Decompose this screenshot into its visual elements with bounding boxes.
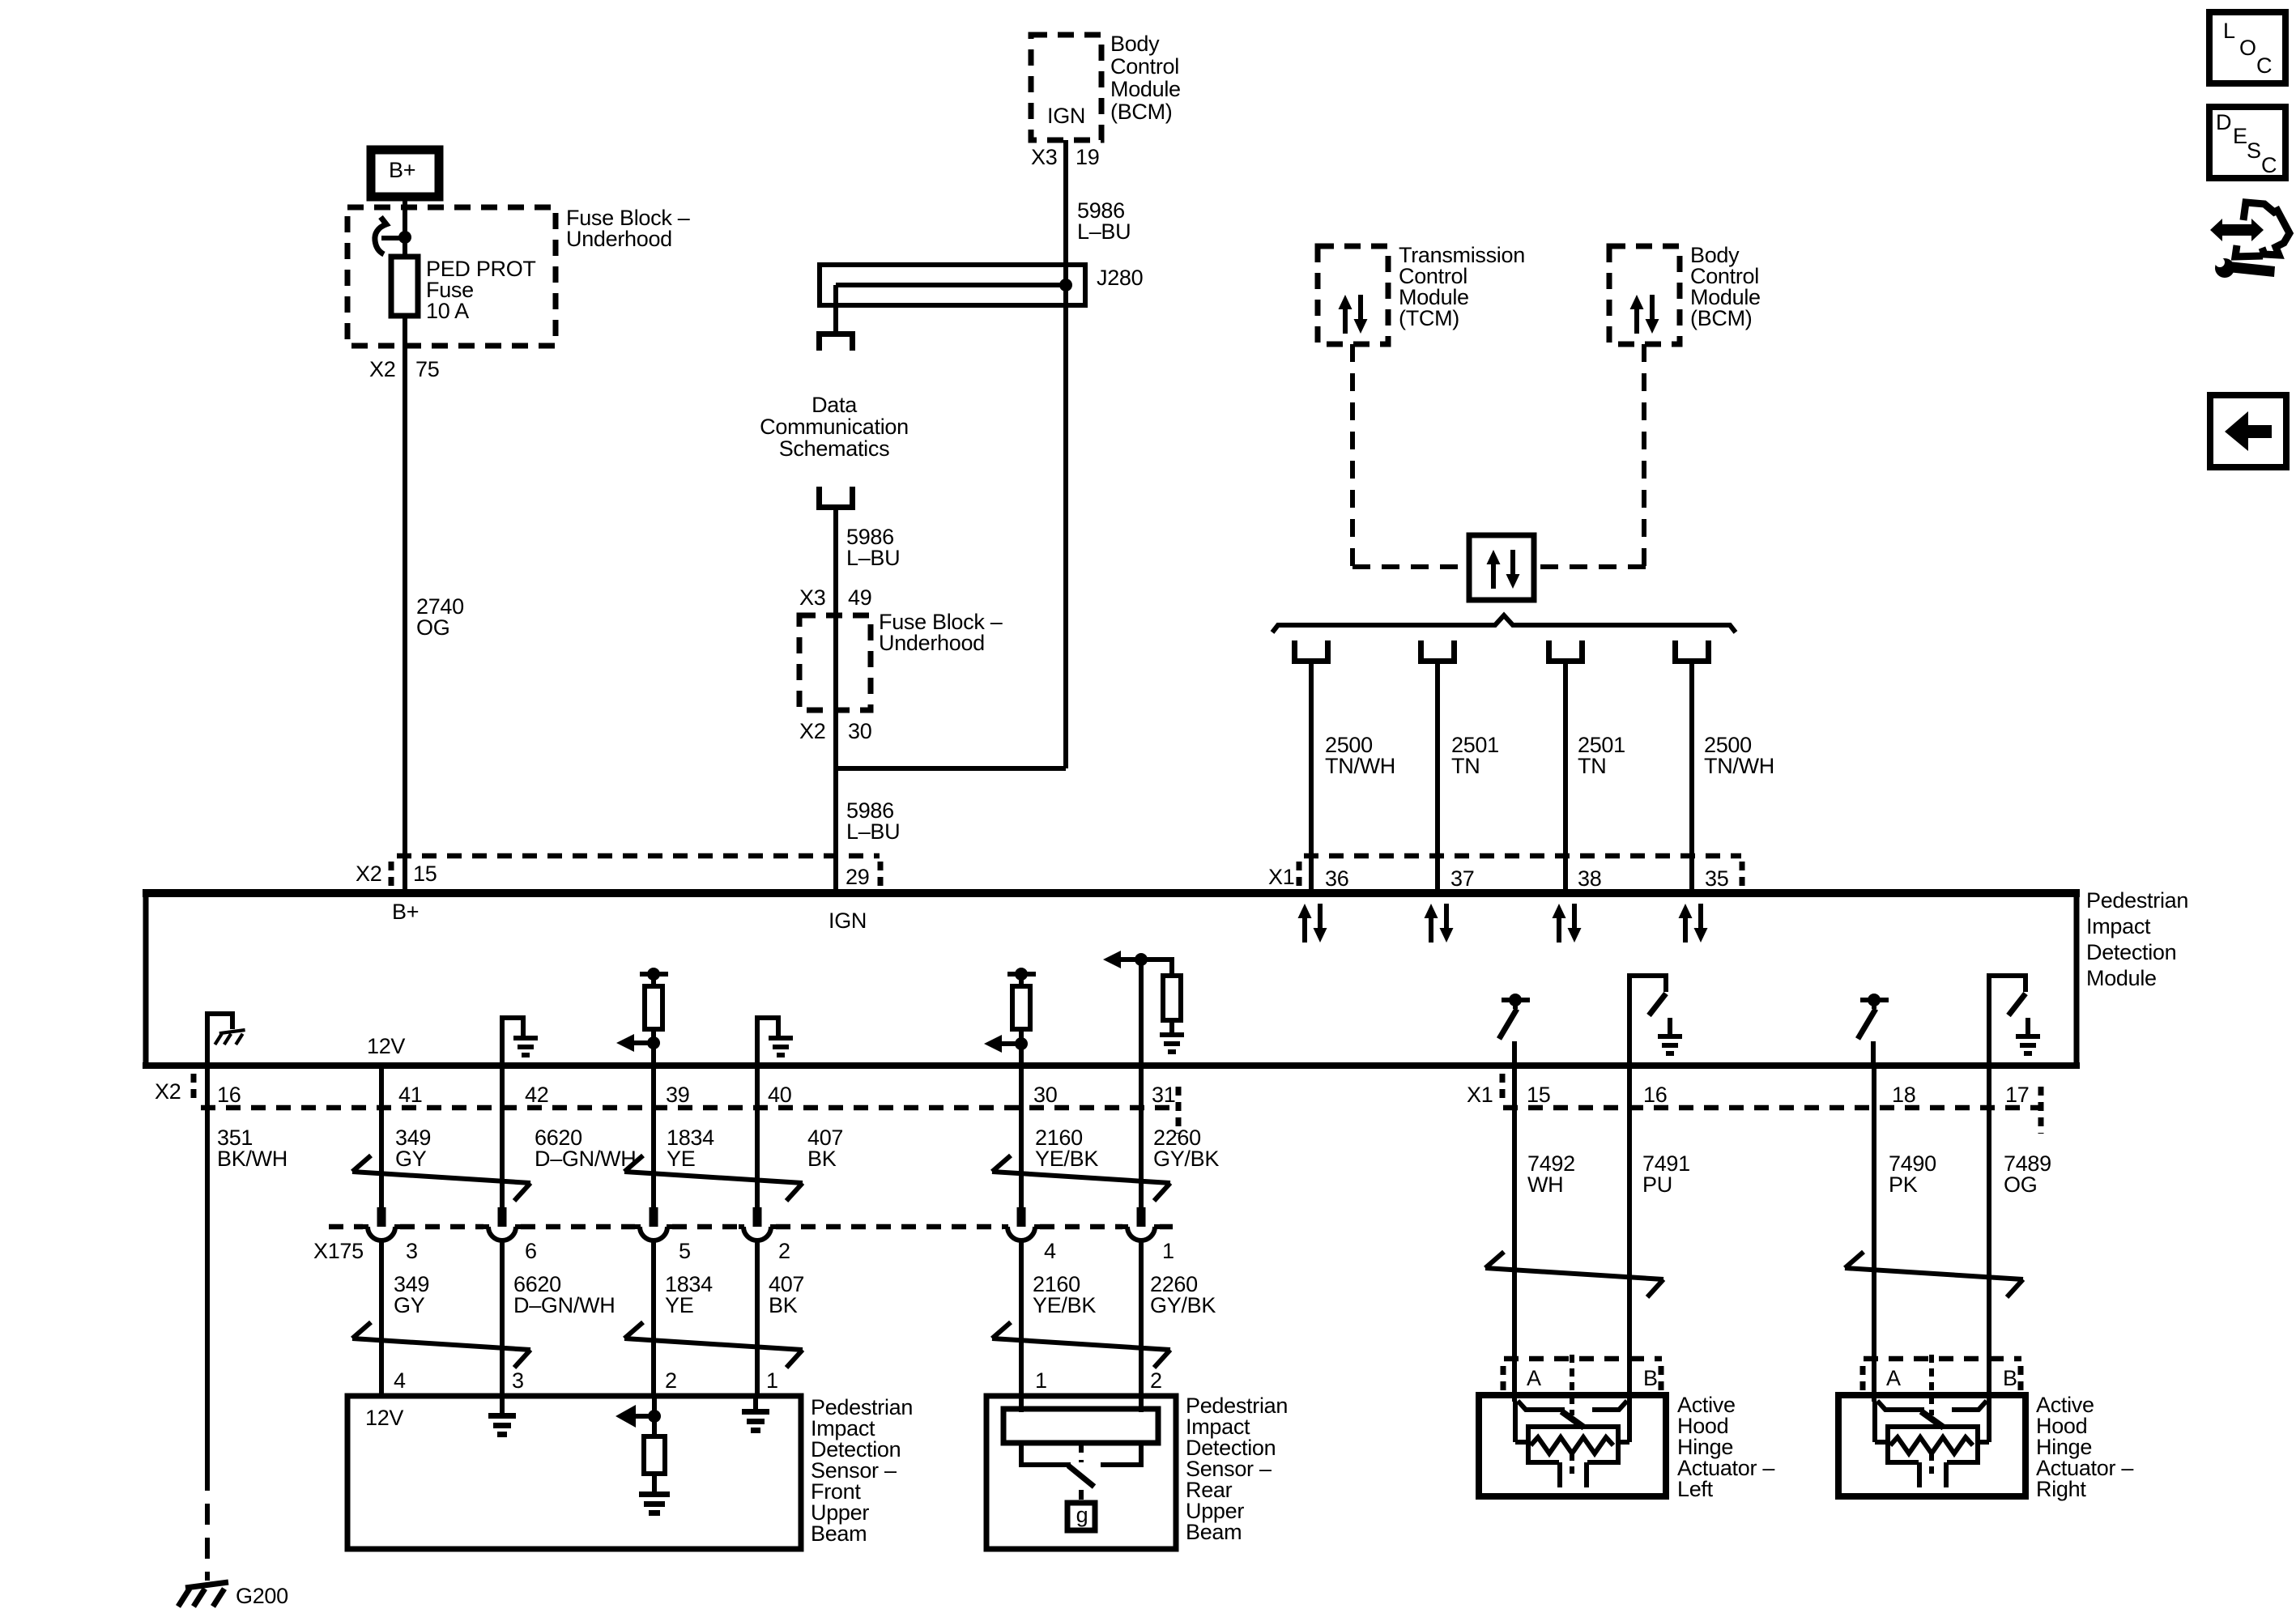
module serial data arrows pin 2 (1553, 904, 1582, 943)
module internal switch X1-17 blade (2008, 994, 2026, 1015)
svg-text:S: S (2247, 138, 2261, 163)
rear sensor right contact (1101, 1443, 1141, 1465)
wire 7489 OG module to actuator (1987, 1066, 1991, 1402)
ground G200 chassis symbol (178, 1582, 228, 1606)
right hood actuator wire B inside (1987, 1402, 1991, 1442)
svg-text:(TCM): (TCM) (1399, 306, 1459, 330)
wire 7491 PU module to actuator (1627, 1066, 1632, 1402)
left hood actuator squib feed B (1618, 1440, 1629, 1445)
left hood actuator wire B inside (1627, 1402, 1632, 1442)
svg-text:X3: X3 (799, 585, 825, 610)
right hood actuator squib leg A (1917, 1462, 1922, 1487)
svg-text:Control: Control (1110, 54, 1179, 79)
harness crossing arrow (30/31 upper) (992, 1155, 1170, 1201)
module internal rail T pin30 (1007, 972, 1036, 977)
harness crossing arrow (349/6620 lower) (352, 1322, 530, 1368)
left hood actuator connector link dashed (1570, 1355, 1574, 1415)
svg-text:C: C (2261, 153, 2277, 177)
icon wrench (2215, 257, 2275, 278)
left hood actuator contact seat A (1518, 1401, 1565, 1410)
svg-text:L–BU: L–BU (846, 819, 900, 844)
body control module (BCM) dashed box top (1031, 35, 1101, 140)
module internal signal arrow pin30 (984, 1035, 1021, 1053)
connector X175 terminal pin 5 (635, 1207, 672, 1240)
module internal switch X1-15 blade (1499, 1009, 1517, 1039)
rear sensor pin2 lead (1139, 1398, 1144, 1412)
svg-text:41: 41 (398, 1083, 422, 1107)
svg-text:GY: GY (394, 1293, 425, 1317)
svg-text:B: B (1643, 1366, 1658, 1390)
svg-text:75: 75 (415, 357, 439, 381)
connector X2 tick right (878, 862, 884, 891)
svg-text:OG: OG (2004, 1172, 2037, 1197)
svg-text:BK: BK (769, 1293, 798, 1317)
svg-text:Left: Left (1677, 1477, 1714, 1501)
svg-text:16: 16 (217, 1083, 241, 1107)
BCM serial data arrows (1630, 295, 1659, 334)
svg-text:E: E (2233, 124, 2247, 148)
wire 6620 D-GN/WH X175 to sensor (500, 1240, 505, 1398)
connector X175 terminal pin 1 (1122, 1207, 1160, 1240)
svg-text:PU: PU (1642, 1172, 1672, 1197)
fuse clip lead (381, 236, 405, 240)
front sensor earth ground pin1 (742, 1409, 769, 1433)
right hood actuator squib resistor element (1890, 1437, 1973, 1453)
front sensor earth ground pin2 (639, 1491, 670, 1516)
pedestrian impact detection module outline bottom (143, 1062, 2080, 1069)
right hood actuator piston link dashed (1929, 1453, 1934, 1474)
bus terminal shoe 2 (1418, 640, 1457, 664)
off-page connector to data communication schematics (upper half) (816, 331, 855, 351)
front sensor node pin2 (648, 1410, 661, 1423)
left hood actuator contact seat B (1592, 1401, 1627, 1410)
wire 1834 YE X175 to sensor (651, 1240, 656, 1398)
module internal stub pin30 (1019, 974, 1024, 986)
front sensor resistor stub (652, 1474, 657, 1491)
svg-text:X3: X3 (1031, 145, 1057, 169)
wire 2260 GY/BK X175 to sensor (1139, 1240, 1144, 1398)
right hood actuator connector link dashed (1929, 1355, 1934, 1415)
svg-text:Communication: Communication (760, 415, 909, 439)
bus terminal shoe 3 (1546, 640, 1585, 664)
pedestrian impact detection module outline left (143, 889, 149, 1069)
module internal node pin39 top (647, 968, 660, 981)
rear sensor mass element (1003, 1409, 1158, 1443)
wire 7490 PK module to actuator (1872, 1066, 1876, 1402)
svg-text:42: 42 (525, 1083, 548, 1107)
svg-text:30: 30 (1033, 1083, 1057, 1107)
front sensor earth ground pin3 lead (500, 1398, 505, 1413)
wire 7492 WH module to actuator (1512, 1066, 1517, 1402)
TCM serial data arrows (1339, 295, 1368, 334)
bus terminal shoe 4 (1672, 640, 1711, 664)
wire CAN 2501b to module (1563, 664, 1568, 889)
front sensor earth ground pin1 lead (753, 1398, 758, 1409)
svg-text:(BCM): (BCM) (1690, 306, 1752, 330)
right hood actuator contact seat B (1952, 1401, 1987, 1410)
right hood actuator box (1838, 1395, 2026, 1496)
svg-text:TN: TN (1451, 754, 1480, 778)
svg-text:Right: Right (2036, 1477, 2086, 1501)
wire 351 BK/WH from module X2-16 (205, 1066, 210, 1470)
right hood actuator connector tick right (2018, 1366, 2024, 1390)
battery feed B+ terminal box (371, 150, 439, 197)
svg-text:O: O (2239, 36, 2256, 60)
module internal resistor pin31 (1163, 976, 1181, 1020)
wire 5986 L-BU to module pin X2-29 (833, 766, 838, 889)
svg-text:g: g (1076, 1503, 1088, 1527)
front sensor resistor (644, 1436, 665, 1474)
svg-text:37: 37 (1450, 866, 1474, 891)
pedestrian impact detection sensor front upper beam box (347, 1396, 801, 1549)
bus terminal shoe 1 (1292, 640, 1331, 664)
front sensor pin2 lead (652, 1398, 657, 1436)
svg-text:12V: 12V (365, 1406, 403, 1430)
module internal rail T pin39 (640, 972, 668, 977)
svg-text:D–GN/WH: D–GN/WH (513, 1293, 615, 1317)
right hood actuator squib feed B (1978, 1440, 1989, 1445)
svg-text:J280: J280 (1097, 266, 1143, 290)
wire CAN 2500b to module (1689, 664, 1694, 889)
svg-text:X1: X1 (1268, 865, 1294, 889)
svg-text:X175: X175 (313, 1239, 364, 1263)
left hood actuator wire A inside (1513, 1402, 1518, 1442)
svg-text:A: A (1886, 1366, 1901, 1390)
svg-text:Beam: Beam (1186, 1520, 1242, 1544)
connector X1 tick left (top) (1297, 862, 1302, 887)
module internal earth ground pin40 (769, 1036, 793, 1057)
pedestrian impact detection sensor rear upper beam box (986, 1396, 1176, 1549)
svg-text:G200: G200 (236, 1584, 288, 1608)
svg-text:1: 1 (1035, 1368, 1047, 1393)
svg-text:GY/BK: GY/BK (1150, 1293, 1216, 1317)
svg-text:1: 1 (766, 1368, 778, 1393)
wire 5986 L-BU to fuse block X3-49 (833, 510, 838, 768)
icon back box (2210, 395, 2286, 467)
wire 1834 module to X175 (651, 1066, 656, 1208)
left hood actuator connector dashed row (1504, 1356, 1662, 1362)
svg-text:IGN: IGN (829, 908, 867, 933)
rear sensor switch blade (1068, 1466, 1094, 1487)
module internal switch X1-18 T bar (1860, 998, 1889, 1002)
wire 5986 L-BU J280 left leg (833, 285, 838, 331)
connector X2 row bottom dashed (201, 1105, 1178, 1111)
svg-text:3: 3 (512, 1368, 524, 1393)
svg-text:36: 36 (1325, 866, 1348, 891)
module internal wire pin31 (1139, 960, 1144, 1063)
svg-text:Pedestrian: Pedestrian (2086, 888, 2188, 913)
module internal switch X1-18 blade (1858, 1009, 1876, 1039)
svg-text:2: 2 (1150, 1368, 1162, 1393)
off-page connector from data communication schematics (lower half) (816, 487, 855, 510)
connector X1 row (pins 36,37,38,35) dashed (1304, 853, 1741, 859)
left hood actuator squib leg A (1557, 1462, 1562, 1487)
svg-text:Beam: Beam (811, 1521, 867, 1546)
svg-text:BK: BK (807, 1147, 837, 1171)
module internal switch X1-18 node (1868, 994, 1881, 1006)
module internal switch X1-16 ground stub (1668, 1018, 1672, 1034)
connector X1 tick right (top) (1740, 862, 1745, 891)
svg-text:40: 40 (768, 1083, 791, 1107)
harness crossing arrow (7490/7489) (1845, 1252, 2023, 1297)
wire 2260 GY/BK module to X175 (1139, 1066, 1144, 1208)
node J280 splice (1059, 279, 1072, 291)
icon vehicle sill (2235, 245, 2263, 257)
right hood actuator connector dashed row (1864, 1356, 2021, 1362)
svg-text:3: 3 (406, 1239, 418, 1263)
left hood actuator piston link dashed (1570, 1453, 1574, 1474)
module internal switch X1-15 wire (1512, 1041, 1517, 1063)
wire 349 GY X175 to sensor (379, 1240, 384, 1398)
svg-text:35: 35 (1705, 866, 1728, 891)
wire 407 BK X175 to sensor (755, 1240, 760, 1398)
connector X1 row bottom dashed (1503, 1105, 2040, 1111)
svg-text:YE: YE (667, 1147, 695, 1171)
module internal node pin30 low (1015, 1037, 1028, 1050)
module internal ground lead pin16 (207, 1014, 232, 1063)
right hood actuator squib feed A (1875, 1440, 1888, 1445)
svg-text:15: 15 (413, 862, 437, 886)
bus brace (1272, 615, 1736, 632)
module internal ground lead pin40 (757, 1018, 778, 1063)
left hood actuator squib leg B (1584, 1462, 1589, 1487)
svg-text:49: 49 (848, 585, 871, 610)
svg-text:X2: X2 (155, 1079, 181, 1104)
module internal chassis ground pin16 (215, 1030, 245, 1045)
left hood actuator connector tick right (1659, 1366, 1664, 1390)
svg-text:BK/WH: BK/WH (217, 1147, 288, 1171)
icon LOC box (2209, 12, 2285, 83)
svg-text:X2: X2 (369, 357, 395, 381)
svg-text:YE/BK: YE/BK (1035, 1147, 1098, 1171)
left hood actuator connector tick left (1501, 1366, 1506, 1390)
left hood actuator box (1479, 1395, 1666, 1496)
svg-text:2: 2 (778, 1239, 790, 1263)
svg-text:1: 1 (1162, 1239, 1174, 1263)
icon vehicle outline (2243, 202, 2290, 255)
module internal switch X1-18 wire (1871, 1041, 1876, 1063)
svg-text:16: 16 (1643, 1083, 1667, 1107)
svg-text:L–BU: L–BU (1077, 219, 1131, 244)
harness crossing arrow (7492/7491) (1485, 1252, 1663, 1297)
icon double arrow (2210, 219, 2264, 241)
svg-text:X1: X1 (1467, 1083, 1493, 1107)
svg-text:B+: B+ (392, 900, 419, 924)
connector X1 bottom tick left (1500, 1074, 1506, 1103)
module internal switch X1-18 stub (1872, 1000, 1876, 1009)
rear sensor left contact (1021, 1443, 1071, 1465)
left hood actuator squib resistor element (1531, 1437, 1613, 1453)
module internal node pin30 top (1015, 968, 1028, 981)
body control module (BCM) dashed box right (1609, 246, 1680, 344)
wire 349 GY module to X175 (379, 1066, 384, 1208)
dashed serial data link BCM horizontal (1536, 564, 1646, 569)
module internal switch X1-17 ground stub (2026, 1018, 2030, 1034)
wire 2160 YE/BK X175 to sensor (1019, 1240, 1024, 1398)
connector X2 bottom tick right (1176, 1087, 1182, 1134)
icon DESC box (2209, 107, 2285, 178)
wire CAN 2500 to module (1309, 664, 1314, 889)
module internal earth ground pin42 (513, 1036, 538, 1057)
rear sensor link dashed lower (1079, 1490, 1084, 1503)
connector X175 terminal pin 6 (483, 1207, 521, 1240)
svg-text:(BCM): (BCM) (1110, 100, 1172, 124)
svg-text:IGN: IGN (1047, 104, 1085, 128)
wire CAN 2501a to module (1435, 664, 1440, 889)
svg-text:YE/BK: YE/BK (1033, 1293, 1096, 1317)
left hood actuator switch blade (1561, 1411, 1584, 1428)
right hood actuator connector tick left (1860, 1366, 1866, 1390)
svg-text:L: L (2223, 19, 2235, 43)
wire 5986 L-BU corner joining legs (836, 766, 1066, 771)
svg-text:6: 6 (525, 1239, 537, 1263)
connector X175 terminal pin 4 (1003, 1207, 1040, 1240)
wire 2160 YE/BK module to X175 (1019, 1066, 1024, 1208)
svg-text:39: 39 (666, 1083, 689, 1107)
right hood actuator contact seat A (1877, 1401, 1924, 1410)
svg-text:30: 30 (848, 719, 871, 743)
svg-text:Underhood: Underhood (566, 227, 672, 251)
svg-text:Underhood: Underhood (879, 631, 985, 655)
connector X175 dashed row (329, 1224, 1173, 1230)
svg-text:B: B (2003, 1366, 2017, 1390)
wire 5986 L-BU from BCM X3-19 to splice J280 (1063, 140, 1068, 768)
right hood actuator wire A inside (1872, 1402, 1877, 1442)
harness crossing arrow (39/40 upper) (624, 1155, 803, 1201)
serial data gateway box (1469, 535, 1534, 600)
pedestrian impact detection module outline right (2074, 889, 2080, 1069)
svg-text:31: 31 (1152, 1083, 1175, 1107)
wire 6620 module to X175 (500, 1066, 505, 1208)
module internal node pin39 low (647, 1036, 660, 1049)
module serial data arrows pin 1 (1425, 904, 1454, 943)
svg-text:C: C (2256, 53, 2272, 78)
svg-text:WH: WH (1527, 1172, 1563, 1197)
svg-text:Data: Data (811, 393, 858, 417)
dashed serial data link from BCM (1642, 344, 1646, 567)
svg-text:X2: X2 (356, 862, 381, 886)
svg-text:Body: Body (1110, 32, 1160, 56)
node fuse clip junction (398, 231, 411, 244)
splice J280 internal bus (836, 283, 1066, 287)
svg-text:12V: 12V (367, 1034, 405, 1058)
svg-text:TN/WH: TN/WH (1704, 754, 1774, 778)
wire 351 BK/WH dashed continuation (205, 1470, 210, 1581)
fuse block underhood dashed outline (347, 207, 556, 346)
module internal signal arrow pin31 (1103, 951, 1141, 968)
svg-text:Detection: Detection (2086, 940, 2176, 964)
svg-text:38: 38 (1578, 866, 1601, 891)
transmission control module (TCM) dashed box (1318, 246, 1388, 344)
module internal switch X1-15 node (1509, 994, 1522, 1006)
rear sensor link dashed upper (1079, 1443, 1084, 1462)
connector X175 terminal pin 2 (739, 1207, 776, 1240)
fuse clip hook (375, 217, 386, 254)
module internal switch X1-17 hook (1989, 976, 2026, 1063)
svg-text:X2: X2 (799, 719, 825, 743)
svg-text:OG: OG (416, 615, 449, 640)
connector X1 bottom tick right (2038, 1087, 2044, 1134)
connector X175 terminal pin 3 (363, 1207, 400, 1240)
left hood actuator squib resistor frame (1528, 1427, 1618, 1462)
connector X2 bottom tick left (191, 1074, 197, 1103)
fuse PED PROT 10A body (391, 257, 418, 316)
module internal stub pin39 (651, 974, 656, 986)
harness crossing arrow (41/42 upper) (352, 1155, 530, 1201)
module internal ground lead pin42 (502, 1018, 523, 1063)
wire 407 module to X175 (755, 1066, 760, 1208)
module internal wire pin30 (1019, 1029, 1024, 1063)
right hood actuator squib leg B (1944, 1462, 1949, 1487)
svg-text:PK: PK (1889, 1172, 1918, 1197)
module internal resistor pin39 (645, 986, 662, 1029)
svg-text:29: 29 (846, 865, 869, 889)
svg-text:4: 4 (1044, 1239, 1056, 1263)
module internal resistor pin30 (1012, 986, 1030, 1029)
connector X2 tick left (389, 862, 394, 887)
module serial data arrows pin 3 (1679, 904, 1708, 943)
pedestrian impact detection module outline top (143, 889, 2080, 897)
module internal wire pin39 (651, 1029, 656, 1063)
wire 2740 OG from B+ through fuse to module pin X2-15 (403, 197, 407, 889)
module internal switch X1-15 stub (1513, 1000, 1518, 1009)
svg-text:GY/BK: GY/BK (1153, 1147, 1219, 1171)
left hood actuator squib feed A (1515, 1440, 1528, 1445)
svg-text:A: A (1527, 1366, 1541, 1390)
svg-text:B+: B+ (389, 158, 415, 182)
module internal node pin31 (1135, 953, 1148, 966)
right hood actuator switch blade (1921, 1411, 1944, 1428)
module internal switch X1-16 hook (1629, 976, 1666, 1063)
svg-text:Impact: Impact (2086, 914, 2151, 938)
svg-text:D: D (2216, 110, 2231, 134)
fuse block underhood pass-through dashed box (799, 615, 871, 710)
svg-text:Schematics: Schematics (779, 436, 890, 461)
right hood actuator squib resistor frame (1888, 1427, 1978, 1462)
front sensor earth ground pin3 (488, 1413, 516, 1437)
svg-text:GY: GY (395, 1147, 427, 1171)
svg-text:4: 4 (394, 1368, 406, 1393)
module internal earth ground X1-16 (1658, 1034, 1682, 1056)
module internal switch X1-16 blade (1649, 994, 1666, 1015)
harness crossing arrow (1834/407 lower) (624, 1322, 803, 1368)
connector X2 row (pins 15,29) dashed (397, 853, 880, 859)
svg-text:17: 17 (2005, 1083, 2029, 1107)
module internal earth ground pin31 (1160, 1032, 1184, 1054)
svg-text:10 A: 10 A (426, 299, 469, 323)
svg-text:TN/WH: TN/WH (1325, 754, 1395, 778)
module serial data arrows pin 0 (1298, 904, 1327, 943)
module internal switch X1-15 T bar (1502, 998, 1530, 1002)
svg-text:Module: Module (2086, 966, 2157, 990)
rear sensor g-sensor box (1067, 1503, 1095, 1530)
module internal stub pin31 (1169, 1020, 1174, 1032)
serial data gateway arrows (1487, 550, 1520, 589)
svg-text:YE: YE (665, 1293, 693, 1317)
dashed serial data link from TCM (1350, 344, 1355, 567)
svg-text:15: 15 (1527, 1083, 1550, 1107)
module internal signal arrow pin39 (616, 1034, 654, 1052)
svg-text:18: 18 (1892, 1083, 1915, 1107)
svg-text:19: 19 (1076, 145, 1099, 169)
svg-text:TN: TN (1578, 754, 1606, 778)
front sensor signal arrow pin2 (616, 1405, 654, 1428)
svg-text:Module: Module (1110, 77, 1181, 101)
dashed serial data link TCM horizontal (1352, 564, 1467, 569)
splice pack J280 box (820, 265, 1085, 305)
module internal branch pin31 (1141, 960, 1172, 976)
svg-text:D–GN/WH: D–GN/WH (535, 1147, 636, 1171)
